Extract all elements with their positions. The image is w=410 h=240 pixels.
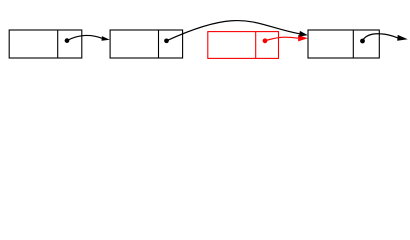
node 3 new node box (red) [208, 32, 279, 59]
wire: red arrow node3 to node4 [265, 35, 308, 41]
node 2 pointer dot [164, 38, 169, 43]
node 4 box [308, 30, 379, 58]
node 2 box [110, 30, 183, 58]
node 4 pointer dot [360, 39, 365, 44]
node 1 box [9, 30, 82, 58]
wire: arrow node4 off to the right [363, 34, 408, 41]
wire: long black arc node2 to node4 over node3 [167, 21, 308, 41]
wire: arrow node1 to node2 [67, 35, 110, 40]
node 1 pointer dot [65, 38, 70, 43]
node 3 pointer dot (red) [263, 38, 268, 43]
